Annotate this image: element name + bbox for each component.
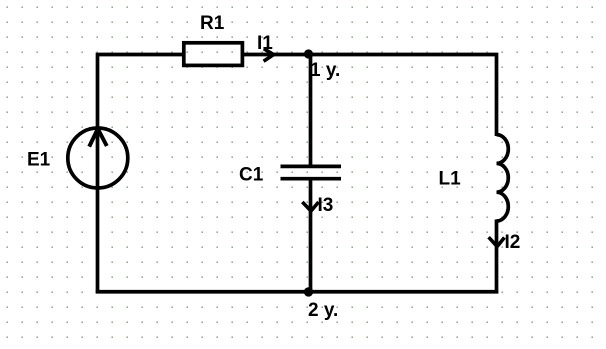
wire: top segment from resistor to top-right corner and down to inductor (243, 55, 497, 137)
resistor R1 (184, 43, 243, 66)
svg-text:2 y.: 2 y. (308, 300, 338, 321)
wire: middle branch below capacitor (309, 181, 313, 292)
node 1 junction dot (304, 49, 313, 58)
arrow of source E1 (89, 129, 107, 147)
svg-text:C1: C1 (239, 165, 264, 186)
svg-text:L1: L1 (439, 169, 462, 190)
svg-text:1 y.: 1 y. (310, 60, 340, 81)
current arrow I1 (264, 49, 274, 62)
capacitor C1 bottom plate (281, 177, 342, 181)
voltage source E1 (68, 128, 128, 188)
wire: bottom rail (96, 290, 499, 294)
wire: middle branch above capacitor (309, 55, 313, 166)
current arrow I3 (302, 202, 318, 211)
capacitor C1 top plate (281, 165, 342, 169)
svg-text:I2: I2 (505, 232, 521, 253)
svg-text:E1: E1 (27, 150, 51, 171)
svg-text:I1: I1 (257, 33, 273, 54)
wire: left branch + top-left segment to resistor (98, 55, 184, 294)
node 2 junction dot (304, 287, 313, 296)
current arrow I2 (489, 237, 505, 246)
inductor L1 coil (497, 135, 509, 221)
wire: right branch below inductor (495, 220, 499, 294)
svg-text:R1: R1 (200, 13, 225, 34)
svg-text:I3: I3 (318, 195, 334, 216)
